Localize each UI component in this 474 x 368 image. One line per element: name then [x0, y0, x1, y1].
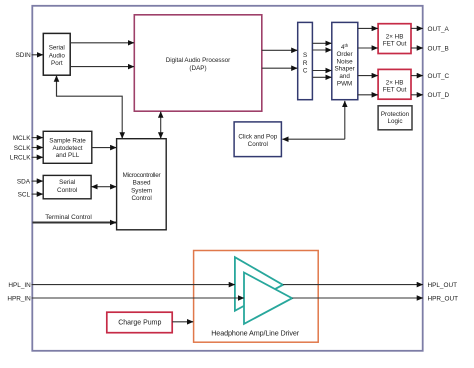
svg-text:OUT_D: OUT_D — [428, 92, 450, 99]
svg-text:HPR_IN: HPR_IN — [7, 295, 31, 302]
svg-text:(DAP): (DAP) — [189, 65, 206, 72]
svg-text:Based: Based — [133, 180, 151, 187]
svg-text:MCLK: MCLK — [13, 135, 31, 142]
svg-text:Port: Port — [51, 60, 63, 67]
svg-text:Sample Rate: Sample Rate — [49, 138, 86, 145]
svg-text:Microcontroller: Microcontroller — [123, 172, 161, 179]
svg-text:Logic: Logic — [387, 118, 402, 125]
svg-text:C: C — [303, 67, 308, 74]
svg-text:SDIN: SDIN — [16, 52, 32, 59]
svg-text:Serial: Serial — [49, 45, 65, 52]
svg-text:Serial: Serial — [59, 179, 75, 186]
svg-text:FET Out: FET Out — [383, 87, 407, 94]
svg-text:Control: Control — [131, 195, 151, 202]
svg-text:SCLK: SCLK — [14, 145, 31, 152]
svg-text:Order: Order — [337, 51, 353, 58]
svg-text:Digital Audio Processor: Digital Audio Processor — [166, 57, 231, 64]
svg-text:OUT_A: OUT_A — [428, 26, 450, 33]
svg-text:Control: Control — [57, 187, 77, 194]
svg-text:S: S — [303, 52, 307, 59]
svg-text:and: and — [339, 73, 350, 80]
svg-text:Shaper: Shaper — [334, 66, 354, 73]
svg-text:and PLL: and PLL — [56, 152, 80, 159]
svg-text:2× HB: 2× HB — [386, 33, 404, 40]
svg-text:HPL_OUT: HPL_OUT — [428, 282, 458, 289]
svg-text:R: R — [303, 60, 308, 67]
svg-text:Autodetect: Autodetect — [52, 145, 82, 152]
svg-text:OUT_B: OUT_B — [428, 45, 449, 52]
svg-text:Click and Pop: Click and Pop — [238, 134, 277, 141]
svg-text:Control: Control — [248, 141, 268, 148]
svg-text:LRCLK: LRCLK — [10, 155, 31, 162]
svg-text:OUT_C: OUT_C — [428, 73, 450, 80]
svg-text:Noise: Noise — [337, 58, 354, 65]
svg-text:HPL_IN: HPL_IN — [8, 282, 31, 289]
svg-text:PWM: PWM — [337, 80, 352, 87]
svg-text:Protection: Protection — [381, 111, 410, 118]
svg-text:2× HB: 2× HB — [386, 79, 404, 86]
svg-text:Charge Pump: Charge Pump — [118, 320, 161, 327]
svg-text:SDA: SDA — [17, 178, 31, 185]
svg-text:System: System — [131, 188, 152, 195]
svg-text:SCL: SCL — [18, 191, 31, 198]
svg-text:Audio: Audio — [49, 52, 66, 59]
svg-text:FET Out: FET Out — [383, 40, 407, 47]
svg-text:Headphone Amp/Line Driver: Headphone Amp/Line Driver — [211, 328, 300, 337]
svg-text:HPR_OUT: HPR_OUT — [428, 295, 459, 302]
svg-text:Terminal Control: Terminal Control — [45, 214, 92, 221]
